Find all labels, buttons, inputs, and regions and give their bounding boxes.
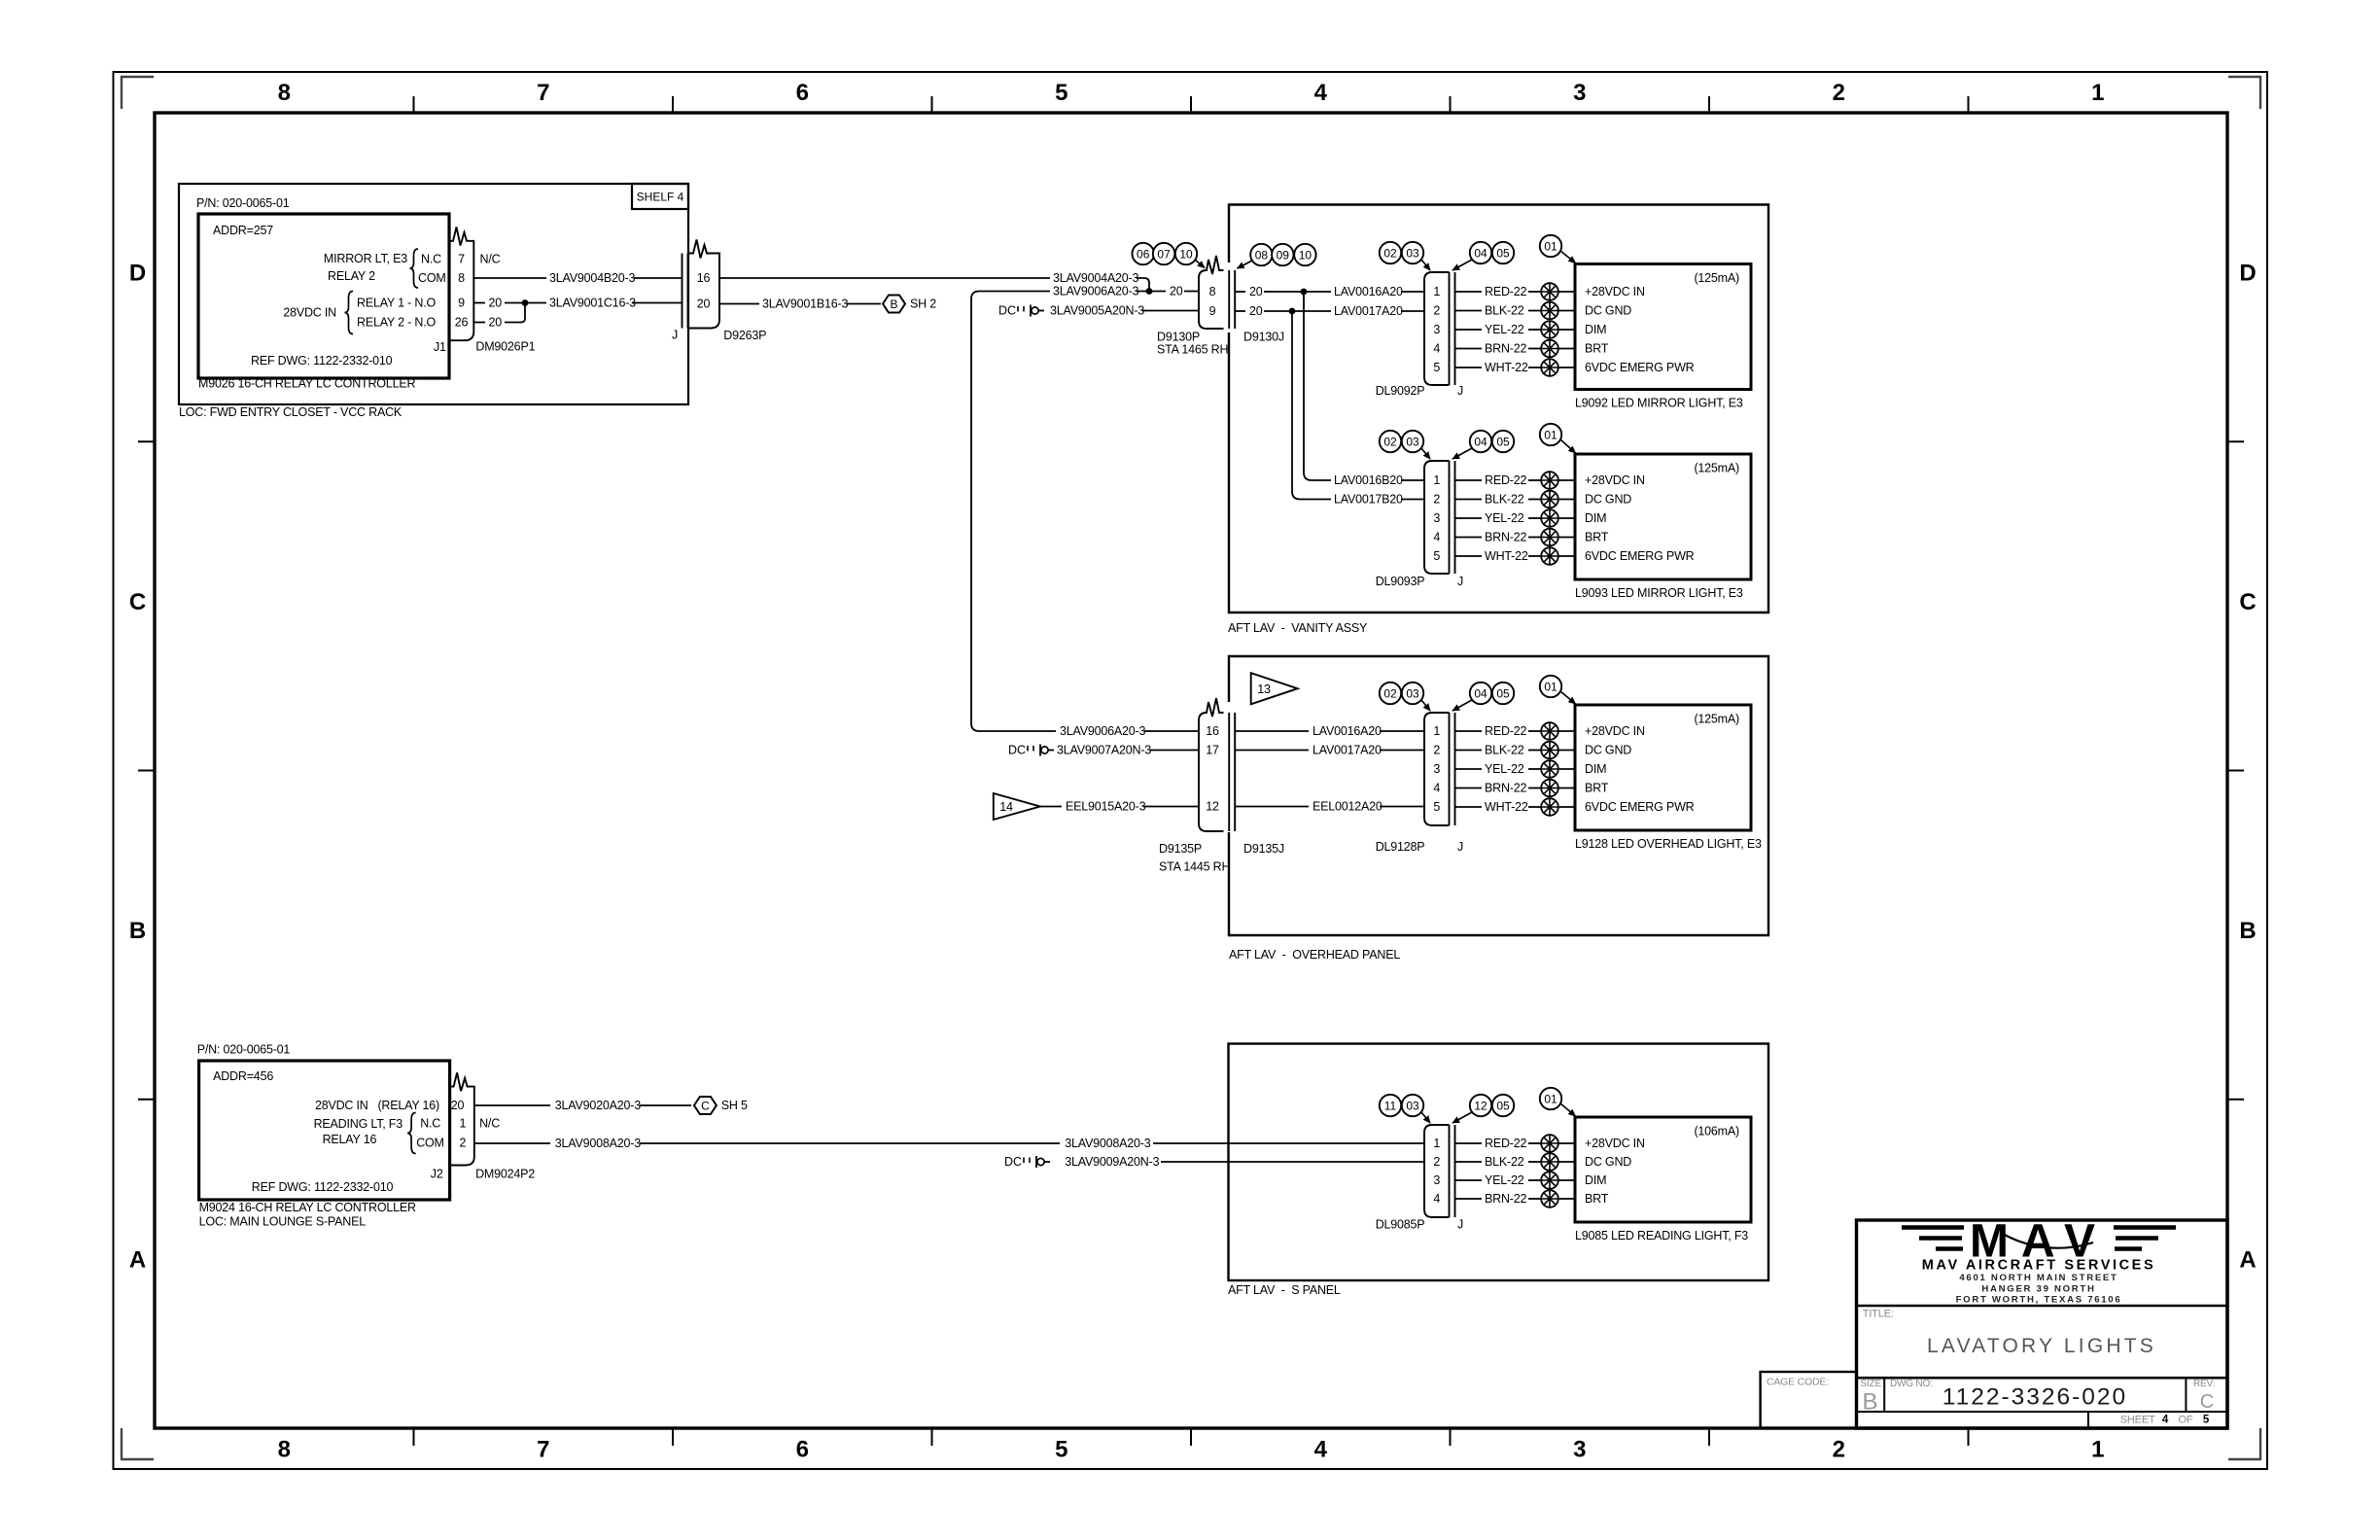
svg-text:B: B bbox=[129, 918, 146, 944]
svg-text:HANGER 39 NORTH: HANGER 39 NORTH bbox=[1981, 1284, 2095, 1295]
svg-text:RELAY 16: RELAY 16 bbox=[323, 1133, 377, 1146]
controller M9026 enclosure box SHELF 4 bbox=[179, 184, 688, 404]
svg-text:6VDC EMERG PWR: 6VDC EMERG PWR bbox=[1585, 361, 1695, 374]
light L9093 pin function labels bbox=[1585, 473, 1695, 563]
svg-text:SHELF 4: SHELF 4 bbox=[637, 191, 684, 204]
svg-text:6: 6 bbox=[796, 80, 809, 106]
wire BRN-22 L9093 bbox=[1455, 531, 1542, 544]
svg-text:3LAV9004A20-3: 3LAV9004A20-3 bbox=[1053, 271, 1138, 285]
svg-text:5: 5 bbox=[1433, 800, 1440, 814]
svg-text:ADDR=257: ADDR=257 bbox=[213, 224, 273, 237]
svg-text:2: 2 bbox=[1433, 304, 1440, 318]
wire LAV0016B20 tap bbox=[1304, 294, 1424, 487]
svg-text:5: 5 bbox=[1055, 80, 1067, 106]
wire 3LAV9005A20N-3 with DC return symbol bbox=[998, 304, 1199, 318]
svg-text:RED-22: RED-22 bbox=[1485, 285, 1527, 298]
off-sheet flag C SH 5 bbox=[694, 1097, 748, 1114]
svg-text:D9130P: D9130P bbox=[1157, 331, 1200, 344]
svg-text:3: 3 bbox=[1573, 80, 1586, 106]
sheet row bbox=[2120, 1415, 2210, 1426]
wire WHT-22 L9128 bbox=[1455, 800, 1542, 814]
svg-text:J: J bbox=[672, 329, 678, 342]
note triangle 14 bbox=[994, 793, 1040, 820]
svg-text:9: 9 bbox=[458, 297, 465, 310]
svg-text:3: 3 bbox=[1433, 1173, 1440, 1187]
splice BLK-22 L9092 bbox=[1541, 302, 1558, 320]
connector D9130P bbox=[1157, 256, 1228, 357]
wire 3LAV9008A20-3 bbox=[474, 1137, 1424, 1150]
wire label circle 01 light L9085 bbox=[1540, 1088, 1576, 1116]
svg-text:B: B bbox=[2239, 918, 2256, 944]
svg-text:J: J bbox=[1457, 1218, 1463, 1232]
svg-text:3LAV9001B16-3: 3LAV9001B16-3 bbox=[762, 297, 848, 311]
wire EEL9015A20-3 bbox=[1040, 800, 1199, 814]
logo company name bbox=[1922, 1258, 2155, 1274]
wire 3LAV9006A20-3 into D9135P pin16 bbox=[1060, 724, 1199, 738]
wire YEL-22 L9092 bbox=[1455, 323, 1542, 336]
splice YEL-22 L9128 bbox=[1541, 760, 1558, 778]
svg-text:AFT LAV - S PANEL: AFT LAV - S PANEL bbox=[1228, 1283, 1341, 1297]
wire label circles 04 05 J bbox=[1452, 242, 1514, 270]
svg-text:+28VDC IN: +28VDC IN bbox=[1585, 285, 1645, 298]
wire label circle 01 light L9093 bbox=[1540, 424, 1576, 453]
svg-text:COM: COM bbox=[418, 271, 446, 285]
light unit L9092 LED MIRROR LIGHT, E3 bbox=[1575, 264, 1751, 410]
wire RED-22 to light L9128 bbox=[1558, 730, 1575, 732]
svg-text:2: 2 bbox=[1833, 1437, 1845, 1463]
svg-text:+28VDC IN: +28VDC IN bbox=[1585, 724, 1645, 738]
svg-text:3: 3 bbox=[1433, 323, 1440, 336]
junction node pin9/pin26 bbox=[522, 299, 529, 306]
svg-text:1: 1 bbox=[1433, 473, 1440, 487]
CAGE CODE box bbox=[1761, 1372, 1857, 1428]
wire RED-22 to light L9092 bbox=[1558, 291, 1575, 293]
svg-text:20: 20 bbox=[1249, 285, 1263, 298]
svg-text:5: 5 bbox=[1433, 549, 1440, 563]
svg-text:M9024 16-CH RELAY LC CONTROLLE: M9024 16-CH RELAY LC CONTROLLER bbox=[199, 1201, 416, 1214]
svg-text:DC GND: DC GND bbox=[1585, 304, 1631, 318]
svg-text:YEL-22: YEL-22 bbox=[1485, 762, 1524, 776]
wire RED-22 L9093 bbox=[1455, 473, 1542, 487]
wire LAV0017A20 overhead bbox=[1235, 744, 1424, 757]
connector DL9085P J half bbox=[1376, 1125, 1463, 1232]
svg-text:WHT-22: WHT-22 bbox=[1485, 361, 1528, 374]
svg-text:L9128 LED OVERHEAD LIGHT, E3: L9128 LED OVERHEAD LIGHT, E3 bbox=[1575, 837, 1762, 851]
svg-text:REV:: REV: bbox=[2193, 1379, 2215, 1389]
svg-text:(125mA): (125mA) bbox=[1694, 713, 1739, 726]
svg-text:8: 8 bbox=[278, 80, 291, 106]
svg-text:DL9092P: DL9092P bbox=[1376, 384, 1425, 398]
svg-text:14: 14 bbox=[999, 800, 1013, 814]
splice RED-22 L9092 bbox=[1541, 283, 1558, 300]
wire BRN-22 to light L9092 bbox=[1558, 348, 1575, 350]
wire YEL-22 to light L9085 bbox=[1558, 1179, 1575, 1181]
svg-text:DC: DC bbox=[998, 304, 1016, 318]
svg-text:2: 2 bbox=[460, 1136, 467, 1149]
svg-text:DL9085P: DL9085P bbox=[1376, 1218, 1425, 1232]
wire RED-22 to light L9085 bbox=[1558, 1142, 1575, 1144]
title block frame bbox=[1857, 1220, 2228, 1428]
light unit L9093 LED MIRROR LIGHT, E3 bbox=[1575, 454, 1751, 600]
svg-text:20: 20 bbox=[489, 316, 503, 330]
svg-text:4: 4 bbox=[1433, 342, 1440, 356]
wire RED-22 L9085 bbox=[1455, 1137, 1542, 1150]
svg-text:11: 11 bbox=[1384, 1100, 1397, 1113]
svg-text:LAV0016A20: LAV0016A20 bbox=[1334, 285, 1403, 298]
connector DM9024P2 bbox=[450, 1072, 536, 1180]
svg-text:D: D bbox=[129, 261, 146, 287]
logo address lines bbox=[1956, 1273, 2122, 1306]
svg-text:RELAY 2: RELAY 2 bbox=[328, 269, 375, 283]
svg-text:B: B bbox=[1862, 1389, 1877, 1416]
wire 3LAV9001C16-3 bbox=[473, 297, 682, 310]
svg-text:3LAV9004B20-3: 3LAV9004B20-3 bbox=[549, 271, 635, 285]
svg-text:DC GND: DC GND bbox=[1585, 1155, 1631, 1169]
svg-text:05: 05 bbox=[1496, 436, 1510, 449]
svg-text:BRN-22: BRN-22 bbox=[1485, 782, 1527, 795]
connector D9130J bbox=[1229, 270, 1284, 344]
connector DL9128P bbox=[1424, 713, 1450, 825]
svg-text:C: C bbox=[2239, 589, 2256, 615]
splice YEL-22 L9092 bbox=[1541, 321, 1558, 338]
svg-text:7: 7 bbox=[537, 80, 549, 106]
svg-text:FORT WORTH, TEXAS 76106: FORT WORTH, TEXAS 76106 bbox=[1956, 1295, 2122, 1306]
wire YEL-22 to light L9128 bbox=[1558, 768, 1575, 770]
svg-text:1: 1 bbox=[1433, 1137, 1440, 1150]
svg-text:SH 2: SH 2 bbox=[910, 297, 936, 311]
wire WHT-22 L9092 bbox=[1455, 361, 1542, 374]
svg-text:3LAV9020A20-3: 3LAV9020A20-3 bbox=[555, 1099, 641, 1112]
svg-text:8: 8 bbox=[458, 271, 465, 285]
wire YEL-22 to light L9093 bbox=[1558, 517, 1575, 519]
svg-text:3LAV9001C16-3: 3LAV9001C16-3 bbox=[549, 297, 636, 310]
svg-text:12: 12 bbox=[1206, 800, 1219, 814]
svg-text:5: 5 bbox=[2203, 1415, 2210, 1426]
svg-text:4: 4 bbox=[1433, 1192, 1440, 1206]
light L9085 pin function labels bbox=[1585, 1137, 1645, 1206]
wire BLK-22 L9092 bbox=[1455, 304, 1542, 318]
svg-text:RELAY 1 - N.O: RELAY 1 - N.O bbox=[357, 297, 436, 310]
wire BRN-22 L9085 bbox=[1455, 1192, 1542, 1206]
connector D9135J bbox=[1229, 713, 1284, 856]
wire LAV0016A20 overhead bbox=[1235, 724, 1424, 738]
splice YEL-22 L9085 bbox=[1541, 1172, 1558, 1189]
junction node LAV0017 tap bbox=[1289, 308, 1296, 315]
svg-text:YEL-22: YEL-22 bbox=[1485, 511, 1524, 525]
wire BLK-22 to light L9128 bbox=[1558, 750, 1575, 752]
svg-text:26: 26 bbox=[455, 316, 469, 330]
wire 3LAV9004B20-3 bbox=[473, 271, 682, 285]
svg-text:WHT-22: WHT-22 bbox=[1485, 800, 1528, 814]
wire YEL-22 to light L9092 bbox=[1558, 329, 1575, 331]
title LAVATORY LIGHTS bbox=[1863, 1309, 2156, 1358]
svg-text:01: 01 bbox=[1544, 681, 1557, 694]
svg-text:STA 1445 RH: STA 1445 RH bbox=[1159, 860, 1230, 874]
svg-text:BRT: BRT bbox=[1585, 1192, 1609, 1206]
wire BLK-22 L9085 bbox=[1455, 1155, 1542, 1169]
connector DM9026P1 bbox=[449, 227, 536, 354]
connector DL9085P bbox=[1424, 1125, 1450, 1217]
svg-text:C: C bbox=[2200, 1391, 2214, 1413]
svg-text:4: 4 bbox=[1433, 531, 1440, 544]
svg-text:DC GND: DC GND bbox=[1585, 744, 1631, 757]
svg-text:01: 01 bbox=[1544, 429, 1557, 442]
svg-text:LOC: FWD ENTRY CLOSET - VCC RA: LOC: FWD ENTRY CLOSET - VCC RACK bbox=[179, 405, 402, 419]
svg-text:J: J bbox=[1457, 384, 1463, 398]
svg-text:P/N: 020-0065-01: P/N: 020-0065-01 bbox=[197, 1042, 291, 1056]
svg-text:5: 5 bbox=[1433, 361, 1440, 374]
wire label circles 04 05 J bbox=[1452, 431, 1514, 459]
svg-text:LAV0016B20: LAV0016B20 bbox=[1334, 473, 1403, 487]
svg-text:04: 04 bbox=[1474, 687, 1487, 701]
junction node 3LAV9004A/3LAV9006A bbox=[1146, 288, 1153, 295]
connector D9263P / J bbox=[672, 240, 766, 343]
wire BRN-22 to light L9128 bbox=[1558, 787, 1575, 789]
wire YEL-22 L9093 bbox=[1455, 511, 1542, 525]
splice BRN-22 L9085 bbox=[1541, 1190, 1558, 1207]
svg-text:3LAV9009A20N-3: 3LAV9009A20N-3 bbox=[1065, 1155, 1159, 1169]
svg-text:BLK-22: BLK-22 bbox=[1485, 1155, 1524, 1169]
svg-text:4: 4 bbox=[1314, 1437, 1328, 1463]
svg-text:+28VDC IN: +28VDC IN bbox=[1585, 1137, 1645, 1150]
svg-text:1: 1 bbox=[2091, 1437, 2104, 1463]
svg-text:28VDC IN (RELAY 16): 28VDC IN (RELAY 16) bbox=[315, 1099, 439, 1112]
svg-text:J: J bbox=[1457, 840, 1463, 854]
connector DL9128P J half bbox=[1376, 713, 1463, 854]
svg-text:7: 7 bbox=[537, 1437, 549, 1463]
svg-text:BLK-22: BLK-22 bbox=[1485, 493, 1524, 507]
svg-text:12: 12 bbox=[1474, 1100, 1487, 1113]
svg-text:03: 03 bbox=[1406, 687, 1419, 701]
wire label circle 01 light L9092 bbox=[1540, 235, 1576, 263]
svg-text:EEL0012A20: EEL0012A20 bbox=[1312, 800, 1382, 814]
svg-text:BRN-22: BRN-22 bbox=[1485, 531, 1527, 544]
svg-text:4: 4 bbox=[1433, 782, 1440, 795]
svg-text:DC: DC bbox=[1008, 744, 1026, 757]
svg-text:3LAV9008A20-3: 3LAV9008A20-3 bbox=[555, 1137, 641, 1150]
svg-text:LAVATORY LIGHTS: LAVATORY LIGHTS bbox=[1927, 1335, 2156, 1357]
light L9092 pin function labels bbox=[1585, 285, 1695, 374]
wire WHT-22 to light L9128 bbox=[1558, 806, 1575, 808]
svg-text:A: A bbox=[129, 1246, 146, 1273]
splice YEL-22 L9093 bbox=[1541, 509, 1558, 527]
svg-text:EEL9015A20-3: EEL9015A20-3 bbox=[1066, 800, 1146, 814]
svg-text:L9092 LED MIRROR LIGHT, E3: L9092 LED MIRROR LIGHT, E3 bbox=[1575, 397, 1743, 410]
wire 3LAV9004A20-3 bbox=[719, 271, 1149, 290]
svg-text:CAGE CODE:: CAGE CODE: bbox=[1767, 1377, 1829, 1388]
svg-text:BRT: BRT bbox=[1585, 782, 1609, 795]
svg-text:6VDC EMERG PWR: 6VDC EMERG PWR bbox=[1585, 800, 1695, 814]
svg-text:4: 4 bbox=[1314, 80, 1328, 106]
svg-text:02: 02 bbox=[1383, 247, 1397, 261]
light unit L9128 LED OVERHEAD LIGHT, E3 bbox=[1575, 705, 1762, 851]
svg-text:07: 07 bbox=[1157, 248, 1171, 262]
AFT LAV - OVERHEAD PANEL box bbox=[1229, 656, 1768, 962]
svg-text:03: 03 bbox=[1406, 1100, 1419, 1113]
svg-text:20: 20 bbox=[1170, 285, 1183, 298]
svg-text:LAV0016A20: LAV0016A20 bbox=[1312, 724, 1382, 738]
wire BLK-22 to light L9092 bbox=[1558, 310, 1575, 312]
svg-text:28VDC IN: 28VDC IN bbox=[283, 306, 336, 320]
MAV aircraft services logo bbox=[1902, 1216, 2176, 1268]
svg-text:RED-22: RED-22 bbox=[1485, 1137, 1527, 1150]
svg-text:SHEET: SHEET bbox=[2120, 1415, 2155, 1426]
svg-text:DC: DC bbox=[1004, 1155, 1022, 1169]
svg-text:3: 3 bbox=[1573, 1437, 1586, 1463]
svg-text:BRN-22: BRN-22 bbox=[1485, 342, 1527, 356]
svg-text:3: 3 bbox=[1433, 762, 1440, 776]
svg-text:YEL-22: YEL-22 bbox=[1485, 323, 1524, 336]
controller M9024 16-CH relay LC controller box bbox=[197, 1042, 450, 1228]
svg-text:05: 05 bbox=[1496, 247, 1510, 261]
svg-text:STA 1465 RH: STA 1465 RH bbox=[1157, 343, 1228, 357]
light L9128 pin function labels bbox=[1585, 724, 1695, 814]
wire BRN-22 to light L9093 bbox=[1558, 537, 1575, 539]
wire YEL-22 L9085 bbox=[1455, 1173, 1542, 1187]
svg-text:9: 9 bbox=[1209, 304, 1216, 318]
svg-text:3LAV9005A20N-3: 3LAV9005A20N-3 bbox=[1050, 304, 1144, 318]
splice BRN-22 L9093 bbox=[1541, 529, 1558, 546]
svg-text:J: J bbox=[1457, 575, 1463, 588]
svg-text:RED-22: RED-22 bbox=[1485, 724, 1527, 738]
connector DL9092P J half bbox=[1376, 272, 1463, 398]
svg-text:4: 4 bbox=[2162, 1415, 2169, 1426]
wire WHT-22 to light L9092 bbox=[1558, 367, 1575, 368]
svg-text:3LAV9006A20-3: 3LAV9006A20-3 bbox=[1060, 724, 1145, 738]
svg-text:DL9093P: DL9093P bbox=[1376, 575, 1425, 588]
svg-text:WHT-22: WHT-22 bbox=[1485, 549, 1528, 563]
svg-text:D9130J: D9130J bbox=[1243, 331, 1284, 344]
wire BLK-22 L9093 bbox=[1455, 493, 1542, 507]
svg-text:AFT LAV - VANITY ASSY: AFT LAV - VANITY ASSY bbox=[1228, 621, 1368, 635]
svg-text:DIM: DIM bbox=[1585, 511, 1606, 525]
svg-text:DWG NO:: DWG NO: bbox=[1890, 1379, 1933, 1389]
svg-text:A: A bbox=[2239, 1246, 2256, 1273]
wire label circles 11 03 P bbox=[1380, 1095, 1430, 1123]
svg-text:DM9024P2: DM9024P2 bbox=[475, 1168, 535, 1181]
wire label circles 12 05 J bbox=[1452, 1095, 1514, 1123]
svg-text:MIRROR LT, E3: MIRROR LT, E3 bbox=[324, 252, 407, 265]
wire BRN-22 L9092 bbox=[1455, 342, 1542, 356]
wire YEL-22 L9128 bbox=[1455, 762, 1542, 776]
svg-text:J2: J2 bbox=[431, 1168, 443, 1181]
svg-text:DL9128P: DL9128P bbox=[1376, 840, 1425, 854]
svg-text:N.C: N.C bbox=[421, 253, 441, 266]
svg-text:P/N: 020-0065-01: P/N: 020-0065-01 bbox=[196, 196, 290, 210]
svg-text:BRT: BRT bbox=[1585, 531, 1609, 544]
svg-text:5: 5 bbox=[1055, 1437, 1067, 1463]
wire label circles 04 05 J bbox=[1452, 682, 1514, 711]
svg-text:6: 6 bbox=[796, 1437, 809, 1463]
svg-text:LAV0017B20: LAV0017B20 bbox=[1334, 493, 1403, 507]
svg-text:MAV AIRCRAFT SERVICES: MAV AIRCRAFT SERVICES bbox=[1922, 1258, 2155, 1274]
svg-text:D9135J: D9135J bbox=[1243, 842, 1284, 856]
svg-text:C: C bbox=[129, 589, 146, 615]
svg-text:2: 2 bbox=[1433, 1155, 1440, 1169]
svg-text:3LAV9006A20-3: 3LAV9006A20-3 bbox=[1053, 285, 1138, 298]
svg-text:16: 16 bbox=[1206, 724, 1219, 738]
svg-text:M9026 16-CH RELAY LC CONTROLLE: M9026 16-CH RELAY LC CONTROLLER bbox=[198, 377, 415, 391]
svg-text:LAV0017A20: LAV0017A20 bbox=[1312, 744, 1382, 757]
svg-text:3: 3 bbox=[1433, 511, 1440, 525]
svg-text:8: 8 bbox=[278, 1437, 291, 1463]
svg-text:REF DWG: 1122-2332-010: REF DWG: 1122-2332-010 bbox=[252, 1180, 394, 1194]
splice BLK-22 L9128 bbox=[1541, 742, 1558, 759]
wire 3LAV9009A20N-3 with DC return symbol bbox=[1004, 1155, 1424, 1169]
wire D9130J pin9 to LAV0017A20 bbox=[1235, 304, 1424, 318]
svg-text:1: 1 bbox=[1433, 285, 1440, 298]
wire 3LAV9007A20N-3 with DC return symbol bbox=[1008, 744, 1199, 757]
svg-text:RED-22: RED-22 bbox=[1485, 473, 1527, 487]
svg-text:READING LT, F3: READING LT, F3 bbox=[314, 1117, 403, 1131]
splice RED-22 L9128 bbox=[1541, 722, 1558, 740]
wire label circles 02 03 P bbox=[1380, 242, 1430, 270]
wire label circle 01 light L9128 bbox=[1540, 676, 1576, 704]
svg-text:3LAV9007A20N-3: 3LAV9007A20N-3 bbox=[1057, 744, 1151, 757]
splice BLK-22 L9085 bbox=[1541, 1153, 1558, 1171]
note triangle 13 bbox=[1251, 673, 1298, 704]
svg-text:2: 2 bbox=[1433, 493, 1440, 507]
svg-text:01: 01 bbox=[1544, 240, 1557, 254]
svg-text:1122-3326-020: 1122-3326-020 bbox=[1942, 1384, 2127, 1411]
svg-text:LAV0017A20: LAV0017A20 bbox=[1334, 304, 1403, 318]
wire D9130J pin8 to LAV0016A20 bbox=[1235, 285, 1424, 298]
svg-text:D: D bbox=[2239, 261, 2256, 287]
svg-text:1: 1 bbox=[1433, 724, 1440, 738]
svg-text:2: 2 bbox=[1833, 80, 1845, 106]
wire BRN-22 L9128 bbox=[1455, 782, 1542, 795]
wire RED-22 to light L9093 bbox=[1558, 479, 1575, 481]
splice BRN-22 L9128 bbox=[1541, 780, 1558, 797]
svg-text:LOC: MAIN LOUNGE S-PANEL: LOC: MAIN LOUNGE S-PANEL bbox=[199, 1215, 367, 1229]
svg-text:20: 20 bbox=[1249, 304, 1263, 318]
connector DL9093P bbox=[1424, 461, 1450, 574]
controller M9026 16-CH relay LC controller box bbox=[179, 196, 449, 419]
wire LAV0017B20 tap bbox=[1292, 313, 1424, 507]
svg-text:N.C: N.C bbox=[420, 1117, 440, 1131]
svg-text:3LAV9008A20-3: 3LAV9008A20-3 bbox=[1065, 1137, 1150, 1150]
svg-text:04: 04 bbox=[1474, 436, 1487, 449]
dwg no cell bbox=[1890, 1379, 2127, 1411]
wire BLK-22 L9128 bbox=[1455, 744, 1542, 757]
svg-text:OF: OF bbox=[2179, 1415, 2193, 1426]
wire WHT-22 to light L9093 bbox=[1558, 555, 1575, 557]
wire RED-22 L9092 bbox=[1455, 285, 1542, 298]
svg-text:06: 06 bbox=[1137, 248, 1150, 262]
wire 3LAV9001B16-3 to off-sheet B bbox=[719, 297, 881, 311]
svg-text:DIM: DIM bbox=[1585, 323, 1606, 336]
splice WHT-22 L9093 bbox=[1541, 547, 1558, 565]
wire label circles 06 07 10 at D9130P bbox=[1133, 243, 1206, 268]
connector DL9093P J half bbox=[1376, 461, 1463, 588]
svg-text:02: 02 bbox=[1383, 687, 1397, 701]
svg-text:10: 10 bbox=[1179, 248, 1193, 262]
wire RED-22 L9128 bbox=[1455, 724, 1542, 738]
svg-text:C: C bbox=[701, 1100, 710, 1113]
svg-text:20: 20 bbox=[697, 297, 711, 311]
zone tick marks bbox=[138, 96, 2244, 1446]
svg-text:6VDC EMERG PWR: 6VDC EMERG PWR bbox=[1585, 549, 1695, 563]
connector D9135P bbox=[1159, 698, 1230, 874]
svg-text:L9093 LED MIRROR LIGHT, E3: L9093 LED MIRROR LIGHT, E3 bbox=[1575, 586, 1743, 600]
svg-text:J1: J1 bbox=[434, 340, 446, 354]
svg-text:7: 7 bbox=[458, 253, 465, 266]
wire BRN-22 to light L9085 bbox=[1558, 1198, 1575, 1200]
wire label circles 02 03 P bbox=[1380, 682, 1430, 711]
splice RED-22 L9085 bbox=[1541, 1135, 1558, 1152]
svg-text:+28VDC IN: +28VDC IN bbox=[1585, 473, 1645, 487]
svg-text:DM9026P1: DM9026P1 bbox=[475, 340, 535, 354]
